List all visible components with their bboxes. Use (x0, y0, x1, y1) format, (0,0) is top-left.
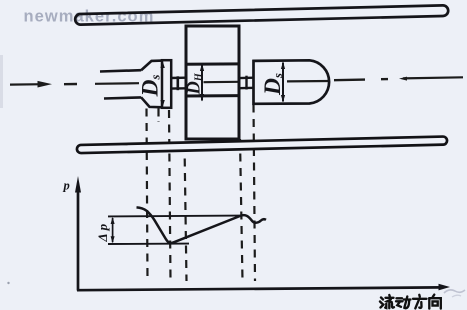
outlet Ds dimension line (282, 63, 284, 102)
scan speck (7, 282, 9, 284)
flow axis dash inside chamber (204, 81, 239, 84)
chamber upper partition (185, 62, 241, 65)
pressure profile curve (137, 207, 267, 243)
scan ghost near axis arrow (444, 290, 465, 293)
flow axis dot 1 (64, 83, 77, 86)
label flow direction (xiang) (429, 295, 441, 309)
flange joint tick (177, 76, 180, 90)
svg-text:Δp: Δp (95, 221, 110, 243)
flow axis dash through nozzle (95, 82, 139, 85)
pipe lower wall bar outline (81, 141, 443, 149)
position line chamber-right dashed x240 (240, 139, 243, 281)
dp lower reference line (108, 243, 189, 245)
nozzle bell bottom profile (141, 97, 163, 107)
label flow direction (liu) (380, 295, 394, 308)
nozzle inlet tube top wall (100, 70, 141, 71)
throat connector flange-chamber bottom (171, 87, 187, 90)
dp dimension vertical line (112, 218, 114, 242)
position line chamber-left dashed x185 (185, 144, 187, 281)
graph x axis (77, 287, 441, 290)
annular chamber outer rect (186, 26, 239, 139)
nozzle bell top profile (141, 61, 163, 71)
label flow direction (fang) (413, 295, 427, 309)
DH dimension arrow up (200, 64, 204, 72)
throat connector chamber-dome top (239, 76, 254, 79)
tap line throat-entry dashed x169 (169, 110, 171, 281)
tap line upstream dashed x146 (147, 109, 148, 282)
position line outlet-end dashed x253 (254, 105, 256, 282)
outlet Ds dimension arrow down (281, 95, 285, 102)
pressure axis p (77, 188, 80, 291)
chamber lower partition (185, 94, 241, 97)
chamber-dome joint tick (245, 76, 247, 90)
dp dimension arrow up (111, 217, 115, 224)
flow axis dot 2 (381, 78, 388, 80)
flow axis left dash (10, 83, 44, 86)
scan smudge left edge (0, 55, 3, 108)
tap stub below flange x158 (157, 109, 159, 123)
flow axis left arrow (38, 81, 53, 88)
label flow direction (dong) (396, 297, 411, 309)
throat connector chamber-dome bottom (239, 87, 254, 90)
outlet dome body (254, 60, 330, 104)
outlet Ds dimension arrow up (281, 62, 285, 69)
DH dimension arrow down (200, 94, 204, 102)
dp dimension arrow down (111, 236, 115, 243)
pipe upper wall bar (hollow rounded outline) (75, 5, 448, 24)
flange dimension arrow down (160, 100, 164, 107)
pipe lower wall bar interior (81, 141, 443, 149)
flow axis long dash right (403, 77, 463, 78)
throat connector flange-chamber top (171, 76, 187, 79)
nozzle inlet tube bottom wall (104, 97, 141, 98)
dp upper reference line (108, 215, 241, 218)
flange dimension arrow up (160, 61, 164, 68)
x axis arrowhead (439, 284, 451, 291)
DH dimension line (201, 65, 203, 101)
flow axis small left arrowhead (399, 77, 407, 81)
nozzle flange plate (162, 60, 171, 108)
svg-text:p: p (63, 179, 70, 193)
flow axis dash inside dome (287, 80, 330, 83)
flow axis dash after dome (334, 78, 365, 81)
pressure axis arrowhead (75, 176, 81, 193)
